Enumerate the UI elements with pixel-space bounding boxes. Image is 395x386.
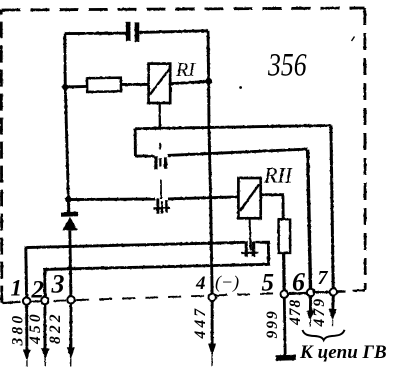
ground wire 999 xyxy=(276,298,296,358)
svg-text:RII: RII xyxy=(263,163,294,188)
wire capacitor right xyxy=(139,31,208,33)
svg-text:3: 3 xyxy=(51,270,65,299)
wire left vertical upper xyxy=(65,34,69,212)
wire contact K3 to terminal 2 xyxy=(45,242,269,297)
wire diode to terminal 3 xyxy=(70,231,71,297)
svg-text:(−): (−) xyxy=(215,272,239,293)
border segment terminal 6 to 7 xyxy=(314,291,329,294)
wire line A terminal 7 net xyxy=(135,125,331,128)
contact K1 of RI xyxy=(156,156,166,169)
speck near border right xyxy=(352,37,355,42)
svg-text:7: 7 xyxy=(318,267,329,289)
wire main minus vertical to terminal 4 xyxy=(208,31,212,294)
wire arrow lead 380 xyxy=(23,305,31,367)
dashed enclosure border bottom xyxy=(3,290,365,302)
svg-text:356: 356 xyxy=(267,48,307,84)
terminal 6 xyxy=(307,289,314,296)
junction node left lower xyxy=(65,196,71,202)
diode VD1 xyxy=(61,214,78,230)
wire line B right to terminal 6 xyxy=(167,149,307,155)
svg-text:822: 822 xyxy=(47,311,64,344)
svg-text:К цепи ГВ: К цепи ГВ xyxy=(299,342,387,363)
relay coil RI xyxy=(149,64,171,103)
svg-text:478: 478 xyxy=(287,299,304,326)
wire arrow lead 447 xyxy=(208,301,216,366)
wire contact K2 feed left xyxy=(68,198,155,202)
dashed enclosure border left xyxy=(0,10,3,303)
wire relay RI to minus xyxy=(170,81,208,83)
resistor R2 xyxy=(279,219,291,253)
svg-text:479: 479 xyxy=(311,297,328,328)
svg-text:447: 447 xyxy=(192,306,209,340)
terminal 4 xyxy=(209,294,216,301)
terminal 7 xyxy=(330,288,337,295)
wire right vertical to terminal 7 xyxy=(331,125,333,288)
svg-text:450: 450 xyxy=(27,311,44,345)
svg-text:6: 6 xyxy=(292,268,305,297)
wire terminal 1 to contact K3 xyxy=(26,242,245,297)
wire capacitor left xyxy=(65,32,126,35)
contact K2 of RI xyxy=(153,199,169,214)
wire relay RII to resistor R2 xyxy=(261,195,284,220)
border segment right of terminal 7 xyxy=(337,290,346,293)
svg-text:1: 1 xyxy=(11,276,23,301)
junction node resistor tap xyxy=(62,84,68,90)
mechanical link RII xyxy=(250,218,251,250)
wire resistor R2 to terminal 5 xyxy=(282,253,286,291)
terminal 5 xyxy=(281,291,288,298)
wire arrow lead 822 xyxy=(67,304,75,368)
wire arrow lead 479 xyxy=(329,296,337,327)
resistor R1 xyxy=(87,78,121,92)
wire arrow lead 450 xyxy=(41,304,49,366)
relay coil RII xyxy=(238,178,260,218)
wire connector A to B xyxy=(134,129,137,156)
speck near RI net xyxy=(239,86,242,89)
wire contact K2 to relay RII xyxy=(168,197,239,199)
junction node minus/RI xyxy=(205,78,212,85)
wire resistor feed xyxy=(65,85,87,88)
dashed enclosure border right xyxy=(363,8,366,290)
svg-text:380: 380 xyxy=(10,313,27,347)
svg-text:2: 2 xyxy=(31,277,45,304)
svg-text:4: 4 xyxy=(195,273,206,294)
border corner segment bottom-left xyxy=(2,302,12,304)
wire vertical to terminal 6 xyxy=(308,149,311,289)
svg-text:5: 5 xyxy=(262,270,275,297)
wire arrow lead 478 xyxy=(306,296,314,326)
border segment terminal 5 to 6 xyxy=(288,292,307,295)
wire line B left xyxy=(135,155,154,158)
terminal 1 xyxy=(23,297,30,304)
brace under 478 479 xyxy=(303,330,345,340)
terminal 2 xyxy=(41,297,48,304)
svg-text:999: 999 xyxy=(264,309,281,338)
wire resistor to relay xyxy=(121,83,149,86)
svg-text:RI: RI xyxy=(175,59,196,81)
mechanical link RI xyxy=(160,104,162,214)
terminal 3 xyxy=(67,296,74,303)
contact K3 of RII xyxy=(241,241,258,256)
capacitor C1 xyxy=(128,22,137,42)
dashed enclosure border top xyxy=(2,8,365,10)
